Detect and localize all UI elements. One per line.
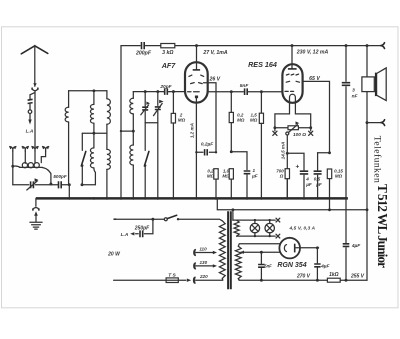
wire heater drop	[232, 210, 234, 220]
ground symbol	[30, 222, 42, 229]
node rect out	[316, 246, 319, 249]
svg-text:270 V: 270 V	[296, 274, 311, 280]
variable capacitor antenna	[31, 181, 34, 188]
RES filament leads	[275, 103, 290, 128]
node 250pF tap	[151, 218, 154, 221]
node lamp2 bot	[269, 235, 271, 237]
node 15M top	[260, 90, 263, 93]
node heater-trafo	[231, 208, 234, 211]
node after switch	[177, 218, 179, 220]
svg-text:100 Ω: 100 Ω	[293, 132, 306, 138]
capacitor 0,2uF	[196, 151, 216, 153]
ground lead	[35, 198, 37, 206]
wire A3 down	[34, 151, 36, 163]
svg-text:250pF: 250pF	[134, 225, 150, 231]
svg-text:MΩ: MΩ	[207, 173, 215, 178]
node trim1 top	[144, 90, 147, 93]
svg-text:220: 220	[199, 274, 208, 279]
bus node x93.9	[93, 197, 96, 200]
terminal A3	[32, 147, 39, 152]
resistor 0,15M	[327, 169, 331, 179]
tube RGN354	[279, 238, 300, 259]
ground plug	[33, 208, 39, 211]
capacitor 4uF-a	[287, 153, 304, 170]
wire antenna lead	[34, 91, 36, 147]
node fil left	[273, 126, 276, 129]
resistor 2M	[172, 92, 174, 114]
hum pot 100	[275, 127, 311, 129]
svg-text:MΩ: MΩ	[222, 173, 230, 178]
svg-text:5nF: 5nF	[264, 264, 272, 269]
wire trim bottoms	[145, 122, 158, 124]
svg-text:200pF: 200pF	[135, 51, 152, 57]
node heater line right	[366, 208, 369, 211]
trafo HT winding	[235, 246, 241, 278]
svg-text:3: 3	[352, 88, 355, 94]
node heater-015M	[328, 208, 331, 211]
node RES anode top	[291, 44, 294, 47]
node A1-coil	[11, 165, 14, 168]
lamp La1	[250, 223, 259, 232]
node 5nF-b tap	[260, 251, 263, 254]
wire 255V line	[340, 279, 367, 281]
terminal A2	[22, 147, 29, 152]
node 4uF-b bottom	[316, 279, 319, 282]
wire A4 down	[41, 151, 45, 163]
node lamp1 top	[254, 219, 256, 221]
wire left riser	[120, 46, 122, 199]
node fil right	[309, 126, 312, 129]
RES grid entry	[248, 91, 282, 93]
coil L1	[68, 91, 70, 108]
bus node x69.3	[68, 197, 71, 200]
coil L5	[93, 133, 95, 148]
wire T2 top grid line	[133, 91, 163, 93]
svg-text:5nF: 5nF	[240, 83, 250, 89]
node L4 bottom	[132, 130, 135, 133]
coil L7	[132, 131, 134, 145]
trimmer capacitor C-trim1	[144, 92, 146, 106]
svg-text:T 512 WL Junior: T 512 WL Junior	[375, 184, 390, 268]
wire L4 jog	[121, 130, 133, 132]
wire T1 top	[69, 90, 107, 92]
AF7 screen tap 26V	[204, 83, 217, 153]
capacitor 20pF	[165, 88, 168, 95]
svg-text:4µF: 4µF	[351, 243, 361, 249]
node 3nF top	[345, 44, 348, 47]
capacitor 5nF-b	[260, 252, 262, 263]
resistor 1,0M	[229, 169, 233, 179]
svg-text:500pF: 500pF	[53, 174, 66, 179]
node speaker top	[366, 44, 369, 47]
bus node x196.4	[195, 197, 198, 200]
svg-text:RGN 354: RGN 354	[277, 262, 306, 269]
svg-text:20 W: 20 W	[107, 252, 121, 258]
capacitor 3nF	[345, 46, 347, 82]
node trim2 top	[156, 90, 159, 93]
bus node x216	[215, 197, 218, 200]
coil L6	[107, 149, 110, 169]
trafo core	[228, 211, 231, 289]
trafo primary	[219, 221, 225, 279]
coil L2	[93, 91, 95, 105]
node L2 bottom	[92, 132, 95, 135]
terminal A1	[9, 147, 16, 152]
svg-text:130: 130	[199, 260, 207, 265]
RES screen tap 65V	[303, 81, 330, 152]
antenna symbol	[21, 46, 48, 54]
svg-text:255 V: 255 V	[350, 274, 365, 280]
svg-text:0,5: 0,5	[314, 177, 321, 182]
wire cathode down	[286, 135, 288, 198]
node 4uF-a branch	[286, 152, 289, 155]
bus node x247	[246, 197, 249, 200]
node speaker tap	[366, 121, 369, 124]
node coil-C junction	[49, 183, 52, 186]
svg-text:L.A: L.A	[121, 232, 129, 238]
AF7 g3 marks	[189, 75, 204, 76]
plug 220	[187, 279, 191, 282]
svg-text:µF: µF	[251, 174, 258, 179]
node T1 top	[92, 89, 95, 92]
coil L3	[106, 91, 108, 99]
antenna coil L-ant	[13, 166, 20, 167]
svg-text:27 V, 1mA: 27 V, 1mA	[202, 50, 228, 56]
capacitor 4uF-b	[316, 248, 318, 263]
svg-text:RES 164: RES 164	[248, 60, 277, 69]
capacitor 5nF	[245, 88, 248, 95]
terminal mains L	[114, 218, 117, 220]
bus node x261.4	[260, 197, 263, 200]
svg-text:3 kΩ: 3 kΩ	[162, 50, 173, 56]
wire rect output	[300, 247, 319, 249]
node antenna-L1	[68, 183, 71, 186]
svg-text:AF7: AF7	[161, 61, 177, 70]
resistor 0,2M	[230, 92, 232, 113]
svg-text:1: 1	[253, 168, 256, 173]
node 5nF-b bottom	[260, 279, 263, 282]
switch mains	[164, 218, 167, 221]
resistor 1k	[327, 278, 340, 282]
bus node x287.3	[286, 197, 289, 200]
bus node x231.3	[230, 197, 233, 200]
resistor 3k	[161, 44, 175, 48]
capacitor 250pF	[144, 219, 153, 234]
wire A1 down	[12, 151, 14, 185]
capacitor 0,5uF	[317, 153, 319, 170]
svg-text:230 V, 12 mA: 230 V, 12 mA	[296, 49, 329, 55]
wire fil top	[238, 244, 281, 247]
speaker	[366, 46, 368, 77]
variable capacitor C-var	[157, 92, 159, 106]
AF7 screen marks	[191, 83, 203, 84]
node 1uF branch	[230, 150, 233, 153]
svg-text:26 V: 26 V	[208, 76, 220, 82]
xmark lamps top	[276, 218, 280, 222]
RES grid row1	[286, 73, 298, 76]
svg-text:1,2 mA: 1,2 mA	[189, 123, 194, 138]
wire 65V jumper	[318, 152, 330, 154]
AF7 cathode	[195, 96, 198, 99]
node AF7 anode top	[195, 44, 198, 47]
socket 110	[194, 249, 196, 255]
svg-text:MΩ: MΩ	[178, 118, 186, 123]
plug top right	[381, 43, 385, 49]
jack circle LA	[28, 110, 32, 114]
svg-text:4: 4	[305, 177, 309, 182]
tube RES164 envelope	[282, 64, 302, 103]
svg-text:MΩ: MΩ	[335, 174, 343, 179]
svg-text:4µF: 4µF	[320, 263, 330, 269]
wire A2 down	[24, 151, 26, 163]
svg-text:MΩ: MΩ	[237, 117, 245, 122]
svg-text:20pF: 20pF	[159, 84, 172, 90]
svg-text:Telefunken: Telefunken	[372, 136, 383, 183]
bus chassis	[36, 197, 348, 200]
capacitor 500pF	[59, 181, 62, 188]
wire fil tap	[240, 251, 244, 254]
arrow LA down	[29, 114, 31, 122]
node sw1 bottom wire	[81, 183, 84, 186]
lamp rail bottom	[237, 235, 276, 237]
fuse TS	[166, 278, 178, 283]
wire 270V line	[238, 279, 327, 281]
bus node x317.6	[316, 197, 319, 200]
lamp La2	[265, 223, 274, 232]
node riser-L4	[120, 130, 122, 132]
resistor 1,5M	[260, 92, 262, 114]
capacitor 1uF	[231, 152, 247, 170]
svg-text:+: +	[295, 163, 299, 170]
switch S2	[144, 123, 146, 151]
svg-text:1kΩ: 1kΩ	[329, 272, 339, 278]
RES grid row2	[286, 80, 299, 83]
wire antenna tune	[13, 183, 51, 186]
AF7 anode	[196, 46, 198, 70]
wire top line	[121, 45, 381, 47]
switch S1	[81, 133, 83, 150]
svg-text:µF: µF	[305, 182, 312, 187]
coil L4	[132, 92, 134, 99]
capacitor 4uF-c	[345, 198, 347, 242]
xmark lamps bottom	[276, 234, 280, 238]
svg-text:L.A: L.A	[26, 128, 34, 134]
lamp rail top	[233, 219, 275, 221]
svg-text:4,5 V, 0,3 A: 4,5 V, 0,3 A	[289, 226, 316, 231]
node lamp2 top	[269, 219, 271, 221]
wire mains switch line	[114, 218, 164, 220]
bus node x157.8	[157, 197, 160, 200]
bus node x121	[120, 197, 123, 200]
svg-text:0,2µF: 0,2µF	[201, 142, 214, 148]
ground arrow	[34, 211, 38, 216]
trafo heater winding	[234, 220, 239, 236]
node 02M-a top	[230, 90, 233, 93]
bus node x133.3	[132, 197, 135, 200]
RES anode	[291, 46, 293, 69]
resistor 700	[285, 169, 289, 179]
antenna plug	[33, 83, 36, 87]
node 4uF-c bottom	[345, 279, 348, 282]
socket 130	[194, 263, 196, 269]
bus node x173.4	[172, 197, 175, 200]
svg-text:14,5 mA: 14,5 mA	[281, 142, 286, 160]
capacitor 200pF	[142, 42, 145, 49]
bus node x304	[303, 197, 306, 200]
svg-text:110: 110	[199, 247, 207, 252]
resistor 0,2M-b	[214, 169, 218, 179]
wire L1 to bus	[68, 185, 70, 199]
svg-text:Ω: Ω	[279, 173, 284, 178]
wire T1 mid	[82, 132, 107, 134]
AF7 grid wire left	[169, 91, 186, 93]
wire heater line	[217, 198, 367, 209]
wire antenna branch	[30, 93, 35, 110]
capacitor antenna LA	[28, 99, 33, 103]
RGN anode	[294, 244, 296, 253]
RES filament	[290, 94, 296, 103]
svg-text:T S: T S	[168, 273, 176, 279]
node 2M top	[172, 90, 175, 93]
bus node x106.9	[106, 197, 109, 200]
fuse line	[114, 279, 186, 281]
svg-text:µF: µF	[315, 182, 322, 187]
bus node x346	[345, 197, 348, 200]
tube AF7 envelope	[185, 62, 208, 102]
terminal A4	[42, 147, 49, 152]
node lamp1 bot	[254, 235, 256, 237]
RGN filament	[284, 245, 286, 252]
svg-text:65 V: 65 V	[309, 76, 320, 82]
xmark fil right	[310, 128, 312, 131]
AF7 grid wire right	[208, 91, 244, 93]
bus node x145.2	[144, 197, 147, 200]
xmark fil left	[274, 128, 276, 131]
svg-text:MΩ: MΩ	[250, 117, 258, 122]
terminal speaker	[367, 122, 381, 124]
